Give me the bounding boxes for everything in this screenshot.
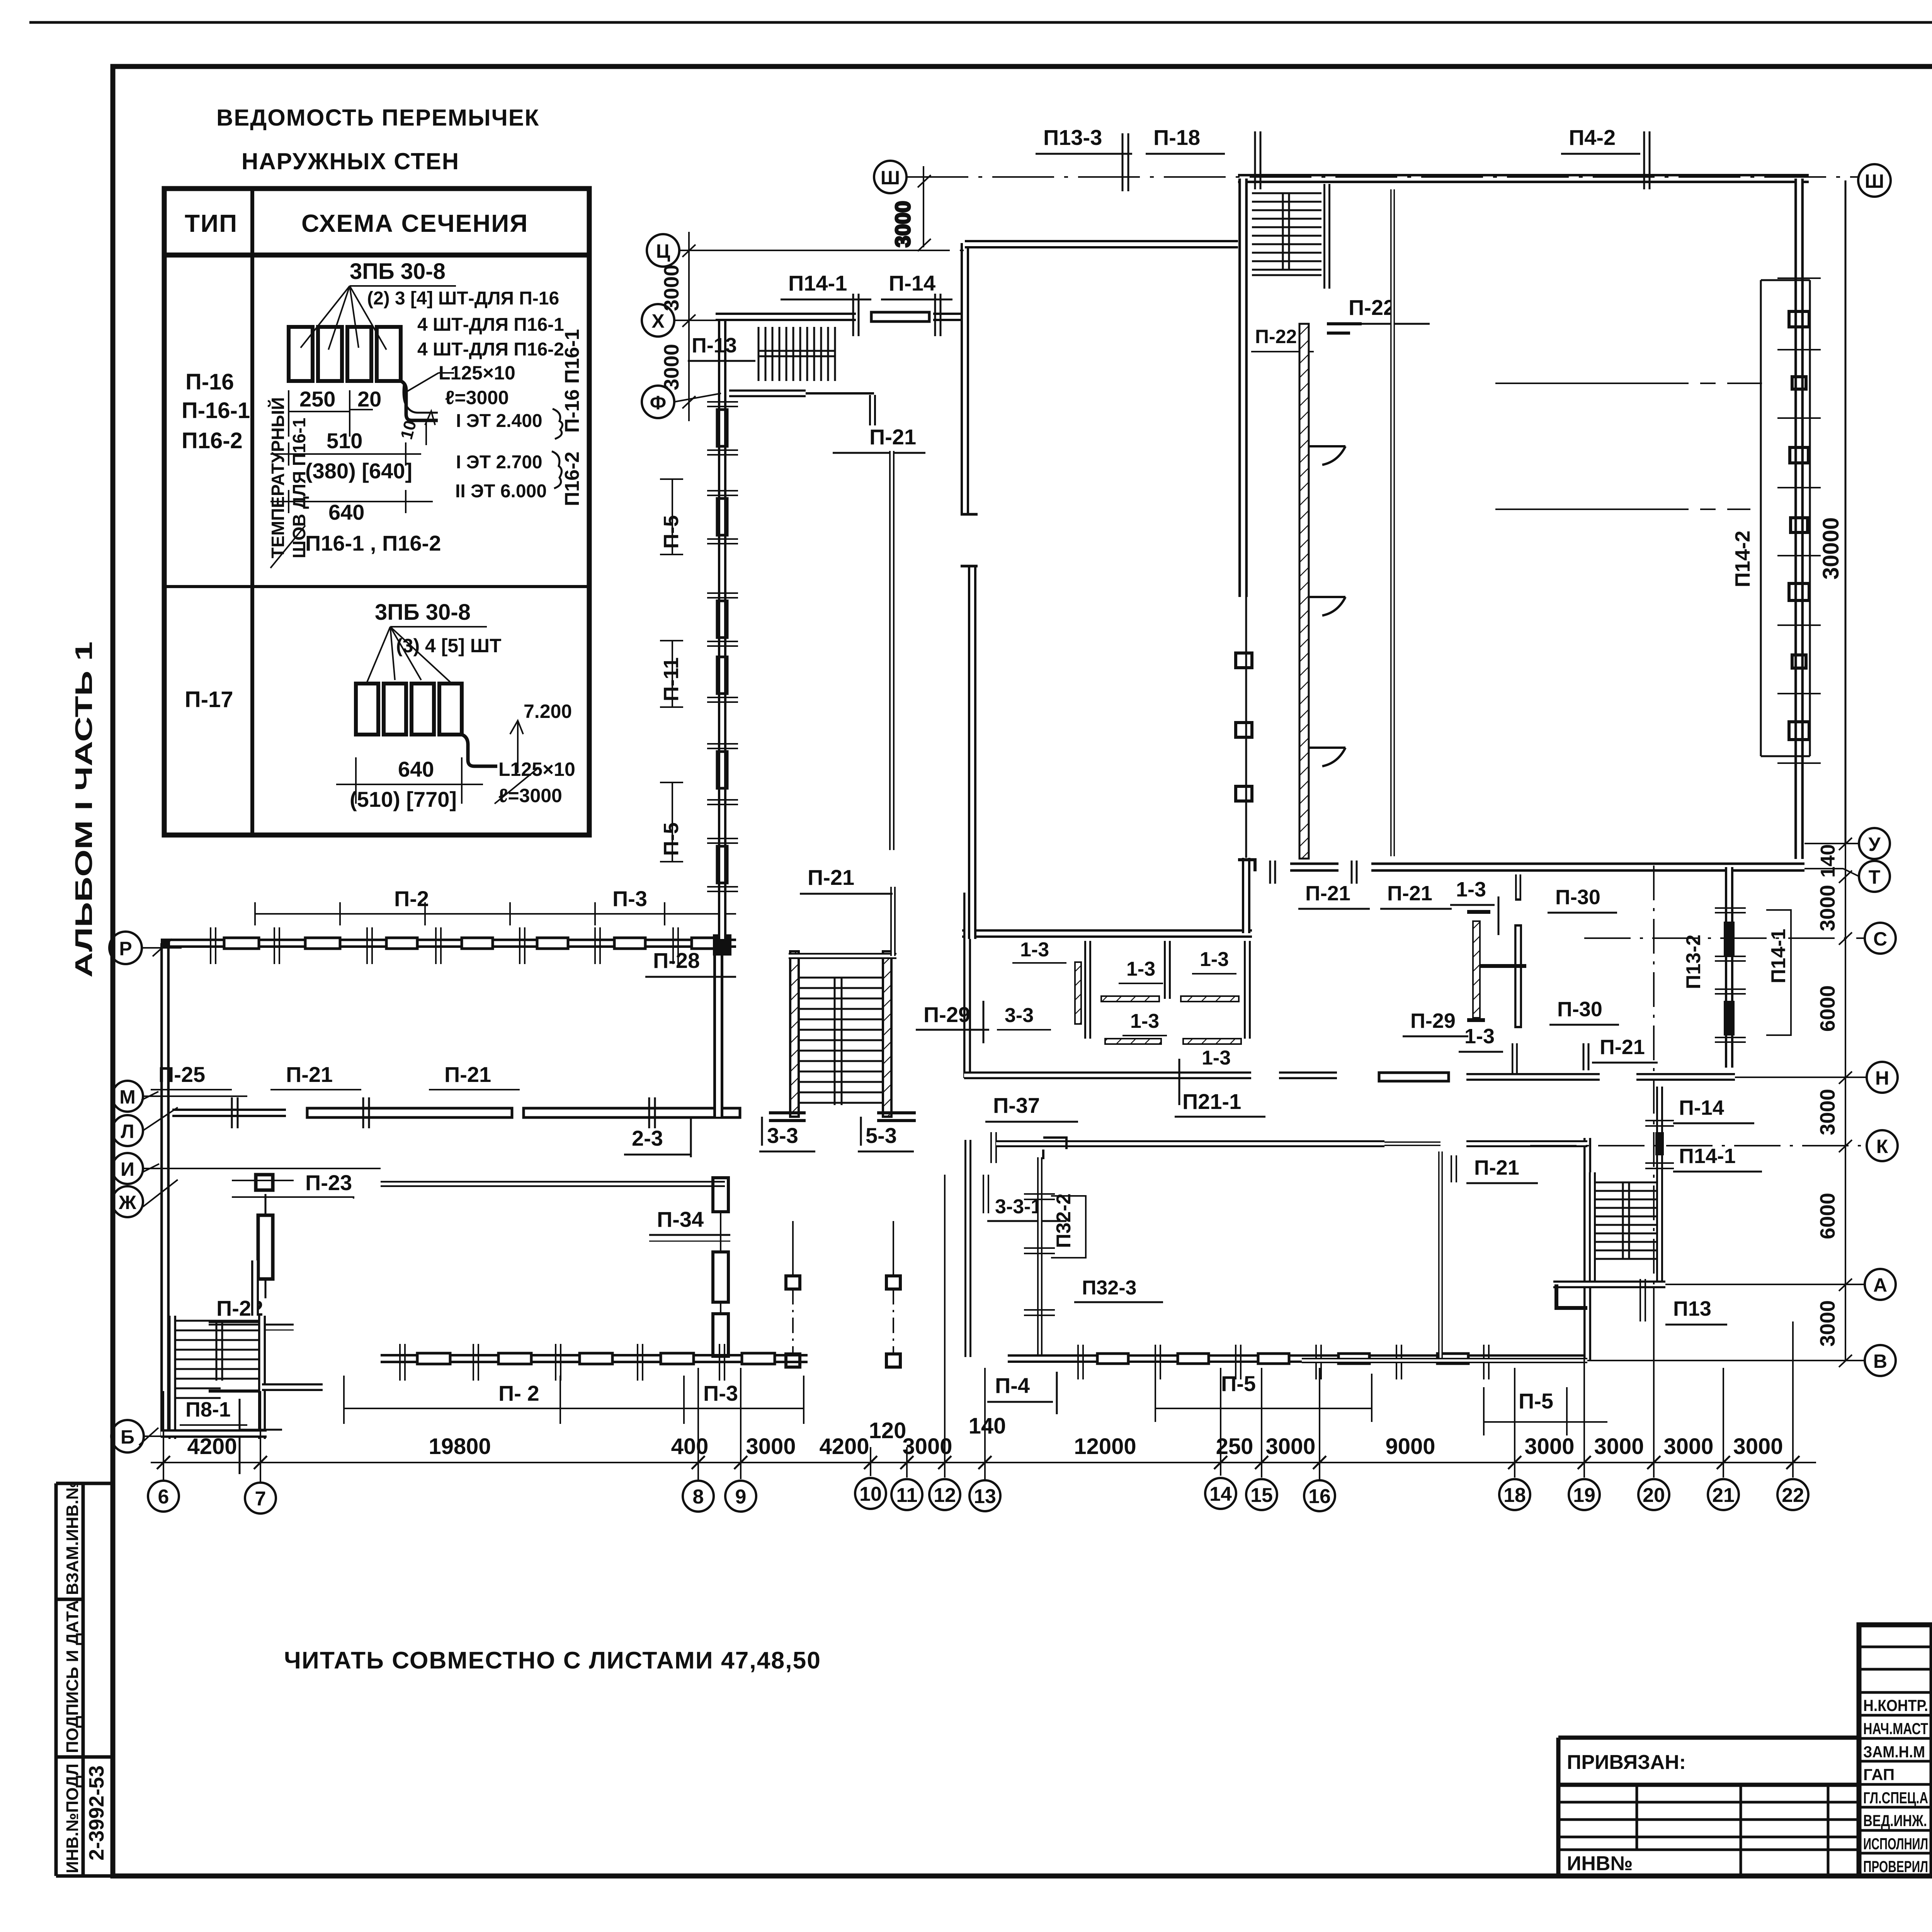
svg-text:П16-1 , П16-2: П16-1 , П16-2 [305,531,441,555]
svg-text:ЗАМ.Н.М: ЗАМ.Н.М [1863,1743,1925,1761]
svg-text:(380) [640]: (380) [640] [305,459,412,483]
svg-text:П-14: П-14 [889,271,935,295]
cluster bottom wall П21-1 [964,1071,1337,1079]
svg-text:1-3: 1-3 [1464,1025,1495,1048]
svg-text:21: 21 [1712,1484,1735,1507]
central staircase walls [790,951,891,1117]
svg-text:(2) 3 [4] ШТ-ДЛЯ П-16: (2) 3 [4] ШТ-ДЛЯ П-16 [367,288,559,309]
row1 braces [552,409,563,488]
row1 leader lines [301,286,456,445]
svg-text:3000: 3000 [1816,1300,1839,1347]
svg-text:П13: П13 [1673,1297,1711,1320]
svg-text:П32-2: П32-2 [1053,1194,1075,1248]
svg-text:П13-3: П13-3 [1043,125,1102,150]
svg-text:Ф: Ф [650,392,667,413]
svg-text:П-18: П-18 [1153,125,1200,150]
svg-text:3000: 3000 [1733,1434,1783,1459]
svg-text:I ЭТ 2.700: I ЭТ 2.700 [456,452,543,473]
svg-text:3000: 3000 [746,1434,796,1459]
svg-text:Б: Б [121,1426,134,1448]
svg-text:30000: 30000 [1818,517,1844,580]
svg-text:В: В [1873,1350,1887,1372]
svg-text:П-4: П-4 [995,1373,1030,1398]
svg-text:П21-1: П21-1 [1182,1089,1241,1114]
svg-text:L125×10: L125×10 [439,362,515,384]
svg-text:3000: 3000 [1816,1089,1839,1135]
svg-text:14: 14 [1209,1483,1232,1505]
svg-text:2-3992-53: 2-3992-53 [85,1765,108,1861]
corridor wall И-Ж [381,1181,725,1187]
svg-text:Ш: Ш [1865,170,1884,192]
svg-text:Н: Н [1875,1067,1889,1089]
svg-text:3000: 3000 [1663,1434,1713,1459]
svg-text:4200: 4200 [187,1434,237,1459]
П-23 column and label [256,1175,273,1190]
svg-text:ВЕД.ИНЖ.: ВЕД.ИНЖ. [1863,1811,1927,1830]
svg-text:I ЭТ 2.400: I ЭТ 2.400 [456,411,543,431]
svg-text:3000: 3000 [1265,1434,1315,1459]
wing window ticks [707,402,738,891]
svg-text:П-21: П-21 [869,425,916,449]
svg-text:П-16 П16-1: П-16 П16-1 [561,329,583,433]
svg-text:ИНВ№: ИНВ№ [1567,1852,1633,1875]
svg-text:Ц: Ц [656,240,670,262]
svg-text:12: 12 [934,1484,956,1507]
svg-text:П-34: П-34 [657,1207,704,1231]
wall connector x3225 between hall and room below [1238,858,1255,933]
svg-text:16: 16 [1308,1485,1331,1508]
columns small on west side [1236,653,1252,668]
svg-text:400: 400 [671,1434,709,1459]
dimension bracket П14-2 [1761,280,1810,756]
stair SW exit wall to corridor [262,1383,323,1391]
svg-text:640: 640 [398,757,434,781]
left lintel schedule table frame [164,189,589,835]
П-14 window pier below Н [1645,1087,1674,1174]
south wall center on В with windows [1008,1354,1587,1363]
svg-text:П-2: П-2 [394,886,429,911]
svg-text:6000: 6000 [1816,985,1839,1032]
svg-text:П-21: П-21 [1600,1036,1645,1059]
bottom tick slashes [157,1456,1799,1469]
svg-text:15: 15 [1250,1484,1273,1507]
svg-text:Т: Т [1869,866,1881,888]
north wall on axis Р [161,939,736,948]
svg-text:П-22: П-22 [1349,295,1395,320]
wall on Ц towards gym [965,240,1238,248]
svg-text:19: 19 [1573,1484,1595,1507]
svg-text:ℓ=3000: ℓ=3000 [498,785,562,806]
svg-text:П-37: П-37 [993,1093,1040,1117]
gym inner hatched wall [1299,324,1309,859]
svg-text:П14-1: П14-1 [788,271,847,295]
svg-text:Х: Х [651,310,664,332]
left wing outer west wall [161,943,736,1436]
svg-text:4200: 4200 [819,1434,869,1459]
window pier below П-23 [258,1194,273,1298]
svg-text:3000: 3000 [1816,885,1839,931]
svg-text:6: 6 [158,1486,169,1508]
bottom extension lines [163,866,1793,1482]
svg-text:3000: 3000 [891,201,915,247]
svg-text:П-21: П-21 [1305,882,1350,905]
gym south wall [1290,862,1804,872]
svg-text:П-5: П-5 [660,515,683,549]
П-28 corner piece [713,934,731,956]
svg-text:П14-2: П14-2 [1731,531,1754,587]
hall north wall on К [996,1138,1384,1159]
svg-text:АЛЬБОМ I ЧАСТЬ 1: АЛЬБОМ I ЧАСТЬ 1 [71,641,97,978]
sheet outer top edge line [29,21,1932,24]
svg-text:1-3: 1-3 [1126,958,1155,980]
gym north wall on Ш [1238,174,1809,183]
svg-text:3000: 3000 [1524,1434,1574,1459]
columns center [786,1276,800,1289]
svg-text:ИСПОЛНИЛ: ИСПОЛНИЛ [1863,1835,1928,1853]
row1 lintel blocks 3ПБ30-8 [289,327,438,420]
svg-text:П-25: П-25 [158,1062,205,1087]
svg-text:1-3: 1-3 [1202,1047,1231,1069]
svg-text:3000: 3000 [902,1434,952,1459]
svg-text:П-28: П-28 [653,948,700,973]
wall x4108 К..В [1583,1138,1591,1361]
wing interior wall [889,451,895,850]
svg-text:П-22: П-22 [1255,326,1297,347]
svg-text:П14-1: П14-1 [1679,1145,1736,1168]
name rows labels [1863,1696,1932,1876]
svg-text:9000: 9000 [1385,1434,1435,1459]
svg-text:ВЕДОМОСТЬ ПЕРЕМЫЧЕК: ВЕДОМОСТЬ ПЕРЕМЫЧЕК [216,105,539,131]
right axis circles У Т С Н К А В [1859,828,1898,1376]
stair SW steps [176,1321,259,1398]
svg-text:И: И [121,1158,134,1180]
svg-text:6000: 6000 [1816,1193,1839,1239]
left axis leader lines [139,939,381,1445]
svg-text:У: У [1868,833,1881,855]
svg-text:П-21: П-21 [286,1062,333,1087]
svg-text:ЧИТАТЬ СОВМЕСТНО С ЛИСТАМИ 47,: ЧИТАТЬ СОВМЕСТНО С ЛИСТАМИ 47,48,50 [284,1647,821,1674]
svg-text:П13-2: П13-2 [1682,935,1705,989]
svg-text:Ш: Ш [881,167,900,189]
attachment mini table ПРИВЯЗАН [1558,1738,1859,1876]
svg-text:3-3: 3-3 [1005,1004,1034,1027]
svg-text:ИНВ.№ПОДЛ: ИНВ.№ПОДЛ [63,1764,82,1873]
svg-text:ГАП: ГАП [1863,1765,1895,1784]
svg-text:П-17: П-17 [185,687,233,712]
svg-text:П-11: П-11 [660,657,683,701]
svg-text:1-3: 1-3 [1456,878,1486,901]
svg-text:П-29: П-29 [1410,1009,1456,1032]
svg-text:П-16: П-16 [185,369,234,395]
svg-text:ВЗАМ.ИНВ.№: ВЗАМ.ИНВ.№ [63,1481,82,1595]
svg-text:П8-1: П8-1 [185,1398,231,1421]
svg-text:1-3: 1-3 [1200,948,1229,971]
svg-text:3000: 3000 [1594,1434,1644,1459]
svg-text:П-14: П-14 [1679,1096,1724,1119]
svg-text:250: 250 [1216,1434,1253,1459]
row1 dim 250 20 [270,390,433,568]
svg-text:ГЛ.СПЕЦ.А: ГЛ.СПЕЦ.А [1863,1789,1928,1807]
svg-text:А: А [1873,1274,1887,1296]
svg-text:140: 140 [969,1413,1006,1439]
svg-text:ТИП: ТИП [185,209,238,237]
Д axis wall by staircase [1553,1284,1665,1308]
svg-text:П-30: П-30 [1557,998,1602,1021]
svg-text:П14-1: П14-1 [1767,929,1790,983]
partition walls vertical [1088,941,1247,1039]
В wall right part [1302,1358,1587,1363]
svg-text:П-3: П-3 [703,1381,738,1405]
svg-text:ПОДПИСЬ И ДАТА: ПОДПИСЬ И ДАТА [63,1600,82,1753]
svg-text:510: 510 [327,429,362,453]
south wall on axis Б [161,1429,267,1438]
svg-text:7.200: 7.200 [524,701,572,722]
wall П-28 vertical [713,951,723,1117]
svg-text:250: 250 [299,387,335,411]
svg-text:9: 9 [735,1486,747,1508]
svg-text:П-21: П-21 [808,865,854,889]
stair top landing wall [789,887,896,956]
svg-text:4 ШТ-ДЛЯ П16-1: 4 ШТ-ДЛЯ П16-1 [417,315,564,335]
svg-text:22: 22 [1782,1484,1804,1507]
title block frame [1859,1625,1932,1876]
row2 leaders [336,627,537,804]
wing stair [759,327,836,381]
svg-text:М: М [119,1086,136,1108]
gym west wall [1243,179,1246,858]
windows row on north wall [224,938,719,949]
row2 lintel blocks [356,684,497,766]
svg-text:3-3: 3-3 [767,1123,798,1148]
right vertical dim chain [1839,838,1852,1367]
south wall of left block on axis В [381,1354,808,1363]
svg-text:К: К [1876,1136,1888,1157]
right staircase [1592,1172,1660,1284]
svg-text:П-5: П-5 [1221,1371,1256,1396]
left axis row circles [109,932,144,1452]
Н axis wall segments [1379,874,1735,1081]
east column ticks [1777,278,1821,763]
svg-text:(510) [770]: (510) [770] [350,787,457,811]
svg-text:П-5: П-5 [660,822,683,856]
bottom dimension line [151,1462,1816,1463]
svg-text:П-3: П-3 [612,886,647,911]
svg-text:ℓ=3000: ℓ=3000 [445,387,509,408]
door openings arcs on hatched wall [1309,446,1345,766]
svg-text:640: 640 [328,500,364,524]
wing east wall [961,243,978,939]
left sidebar box [56,1483,113,1876]
wing wall on Ф [729,393,874,425]
wall x3728 [1438,1151,1443,1359]
bottom axis circles [148,1478,1808,1514]
room cluster top wall [962,893,1252,1078]
svg-text:2-3: 2-3 [632,1126,663,1150]
svg-text:20: 20 [357,387,381,411]
svg-text:С: С [1873,928,1887,950]
upper left axes Ц Х Ф [642,234,679,418]
hall west boundary thin wall [1390,189,1395,856]
svg-text:(3) 4 [5] ШТ: (3) 4 [5] ШТ [396,635,502,656]
30000 vertical dimension [1845,180,1847,844]
hatched thin partitions [1075,962,1241,1044]
svg-text:7: 7 [255,1488,266,1510]
П-34 wall piers [713,1178,728,1356]
svg-text:II ЭТ 6.000: II ЭТ 6.000 [455,481,547,502]
svg-text:11: 11 [896,1484,918,1507]
svg-text:П-23: П-23 [305,1170,352,1195]
svg-text:ПРОВЕРИЛ: ПРОВЕРИЛ [1863,1857,1928,1876]
stair bottom flange [769,1113,916,1121]
svg-text:П-5: П-5 [1519,1389,1553,1413]
svg-text:1-3: 1-3 [1130,1010,1159,1032]
П32-2 pier and label [1024,1157,1055,1359]
svg-text:Р: Р [119,938,132,959]
svg-text:120: 120 [869,1418,906,1443]
row1 steel angle L125x10 [401,381,438,420]
svg-text:П-16-1: П-16-1 [182,398,250,423]
П-22 stub and label [1327,324,1362,333]
svg-text:Ж: Ж [118,1192,136,1213]
svg-text:СХЕМА СЕЧЕНИЯ: СХЕМА СЕЧЕНИЯ [301,209,528,237]
svg-text:ПРИВЯЗАН:: ПРИВЯЗАН: [1567,1751,1686,1774]
svg-text:Н.КОНТР.: Н.КОНТР. [1863,1696,1928,1714]
К wall continuation segments [1384,1141,1587,1146]
partition hatched above Н [1473,921,1480,1018]
svg-text:19800: 19800 [429,1434,491,1459]
svg-text:Л: Л [121,1121,134,1142]
svg-text:ТЕМПЕРАТУРНЫЙ: ТЕМПЕРАТУРНЫЙ [268,397,288,558]
svg-text:L125×10: L125×10 [498,759,575,780]
central staircase steps [799,978,883,1105]
svg-text:П-21: П-21 [1387,882,1432,905]
svg-text:П32-3: П32-3 [1082,1277,1136,1299]
axis Ш circles and line [874,161,1891,197]
svg-text:ШОВ ДЛЯ П16-1: ШОВ ДЛЯ П16-1 [289,418,309,558]
svg-text:3ПБ 30-8: 3ПБ 30-8 [375,600,471,625]
svg-text:10: 10 [859,1483,882,1505]
stair SW block walls [172,1260,262,1439]
stair top (П13-3) [1323,184,1330,289]
east window pier wall [1725,867,1733,1068]
window tick marks north wall [211,927,678,964]
wing north wall on Х [716,312,962,321]
svg-text:П16-2: П16-2 [561,452,583,506]
svg-text:П- 2: П- 2 [498,1381,539,1405]
gym east wall [1794,179,1804,859]
svg-text:П-30: П-30 [1555,886,1600,909]
gym east columns [1789,311,1809,740]
svg-text:1-3: 1-3 [1020,939,1049,961]
svg-text:НАЧ.МАСТ: НАЧ.МАСТ [1863,1719,1928,1738]
svg-text:5-3: 5-3 [866,1123,897,1148]
upper-left wing west wall with windows [718,317,726,939]
svg-text:20: 20 [1643,1484,1665,1507]
svg-text:140: 140 [1817,844,1839,878]
svg-text:13: 13 [974,1485,996,1508]
svg-text:3000: 3000 [660,265,683,311]
svg-text:НАРУЖНЫХ СТЕН: НАРУЖНЫХ СТЕН [241,148,459,174]
svg-text:18: 18 [1503,1484,1526,1507]
svg-text:П16-2: П16-2 [182,428,243,453]
svg-text:12000: 12000 [1074,1434,1136,1459]
svg-text:3000: 3000 [660,344,683,390]
svg-text:П-29: П-29 [923,1002,970,1027]
svg-text:3ПБ 30-8: 3ПБ 30-8 [350,259,446,284]
windows on В wall [417,1353,775,1364]
svg-text:П-13: П-13 [692,334,737,357]
svg-text:4 ШТ-ДЛЯ П16-2: 4 ШТ-ДЛЯ П16-2 [417,339,564,360]
svg-text:П4-2: П4-2 [1569,125,1616,150]
svg-text:П-21: П-21 [444,1062,491,1087]
wall on axis М with openings [172,1108,740,1117]
gym interior long dash guides [1495,383,1762,509]
svg-text:П-21: П-21 [1474,1156,1519,1179]
svg-text:8: 8 [693,1486,704,1508]
